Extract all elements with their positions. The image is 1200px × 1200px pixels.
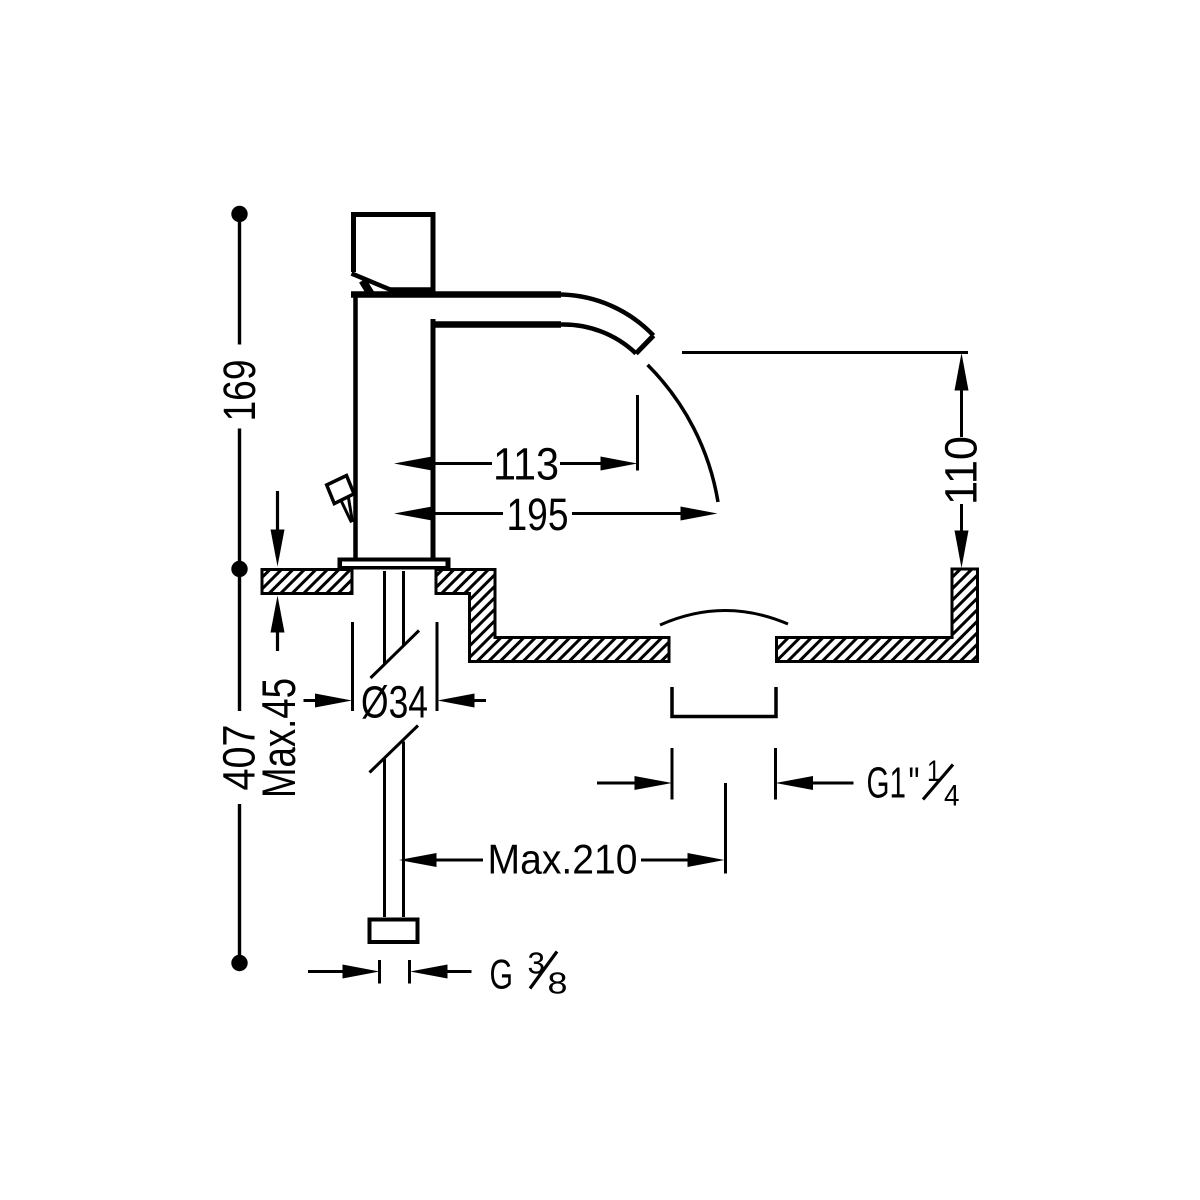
wire g114 centerline below drain — [724, 783, 727, 826]
dimension Max.45 — [276, 491, 279, 651]
wire dim-169-407 line seg1 — [238, 214, 241, 345]
arrow dim195 right — [681, 507, 718, 521]
svg-text:4: 4 — [944, 780, 960, 813]
wire max210 ref vline — [724, 821, 727, 874]
wire spout bottom curve — [561, 324, 636, 353]
wire handle left edge — [351, 212, 356, 272]
svg-text:195: 195 — [507, 489, 569, 540]
wire pipe right lower — [402, 742, 405, 918]
wire g38 tick left — [378, 960, 381, 984]
countertop step shape (hatched) — [436, 570, 669, 662]
pipe break slash 2 — [370, 726, 419, 773]
svg-text:169: 169 — [214, 360, 265, 422]
wire dim113 extension line — [636, 395, 639, 471]
wire g114 shaft right — [812, 782, 854, 785]
wire g38 shaft right — [446, 970, 472, 973]
svg-text:Max.45: Max.45 — [253, 678, 306, 798]
svg-text:110: 110 — [936, 436, 987, 505]
faucet handle square — [351, 212, 436, 294]
clip tilted square — [327, 476, 354, 504]
arrow dim110 down — [955, 531, 969, 569]
arrow dim195 left — [394, 507, 432, 521]
wire pipe left upper — [383, 571, 386, 664]
arrow max45 up — [271, 596, 285, 633]
arrow dim113 left — [394, 457, 432, 471]
wire dim195 line right — [572, 512, 681, 515]
wire body right edge — [431, 319, 436, 558]
clip tail line 2 — [349, 498, 353, 522]
wire g38 shaft left — [308, 970, 344, 973]
node dot bottom — [231, 955, 247, 971]
wire max210 line left — [435, 859, 483, 862]
faucet body and spout — [351, 294, 654, 558]
arrow g38 right-pointing — [343, 965, 380, 979]
wire max45 lower shaft — [276, 629, 279, 651]
wire pipe left lower — [383, 759, 386, 917]
wire body left edge — [353, 294, 358, 558]
drain tailpiece bracket — [672, 687, 776, 717]
wire pipe right upper — [402, 571, 405, 645]
arrow g114 right-pointing — [635, 776, 673, 790]
dimension 113 — [433, 395, 638, 471]
wire dim110 shaft upper — [960, 389, 963, 437]
wire handle bottom diagonal — [352, 274, 391, 290]
wire spout top curve — [561, 295, 654, 336]
left overall dimension chain: line x=239.5 — [238, 214, 241, 957]
dimension 110 with reference line — [682, 353, 968, 533]
wire dim line seg3 — [238, 804, 241, 957]
arrow max45 down — [271, 530, 285, 567]
wire spout bottom straight — [433, 321, 561, 328]
svg-text:8: 8 — [548, 966, 568, 1001]
wire body top plate — [351, 291, 561, 298]
arrow g114 left-pointing — [776, 776, 814, 790]
wire dim113 line left — [433, 462, 492, 465]
arrow max210 left — [399, 853, 437, 867]
water stream arc — [648, 365, 718, 502]
base flange — [338, 558, 451, 570]
label frac slash — [923, 765, 953, 800]
arrow g38 left-pointing — [410, 965, 448, 979]
arrow dim110 up — [955, 353, 969, 391]
wire handle right edge — [431, 212, 436, 294]
wire dia34 shaft right — [473, 699, 486, 702]
countertop right shape (hatched) — [777, 569, 978, 662]
wire ref line spout height — [682, 351, 968, 354]
svg-text:Ø34: Ø34 — [361, 677, 428, 728]
arrow dia34 right — [438, 694, 475, 708]
wire dim195 line left — [433, 512, 503, 515]
svg-text:G: G — [490, 951, 514, 998]
wire max45 upper shaft — [276, 491, 279, 533]
label frac slash — [530, 952, 557, 989]
wire dia34 ext line right — [436, 622, 439, 711]
wire dia34 shaft left — [304, 699, 318, 702]
wire dim110 shaft lower — [960, 504, 963, 532]
dimension 195 — [433, 512, 681, 515]
supply pipe end nut — [370, 920, 418, 943]
pipe break slash 1 — [371, 631, 420, 679]
wire dim line seg2 — [238, 429, 241, 712]
node dot middle — [231, 561, 247, 577]
svg-text:Max.210: Max.210 — [488, 836, 638, 883]
svg-text:": " — [909, 760, 920, 808]
side clip detail on body — [327, 476, 354, 523]
svg-text:113: 113 — [493, 439, 559, 490]
dimension G 3/8 — [308, 960, 472, 984]
clip tail line 1 — [342, 502, 352, 523]
wire g114 tick left — [671, 748, 674, 800]
wire max210 line right — [641, 859, 689, 862]
arrow dim113 right — [601, 457, 638, 471]
wire g38 tick right — [408, 960, 411, 984]
svg-text:G1: G1 — [867, 760, 907, 808]
countertop left band (hatched) — [262, 570, 352, 594]
svg-text:3: 3 — [528, 946, 546, 981]
dimension G1 1/4 — [597, 748, 854, 826]
dimension Max.210 — [435, 821, 726, 874]
wire dim113 line right — [560, 462, 601, 465]
wire dia34 ext line left — [351, 622, 354, 711]
supply pipe — [370, 571, 420, 917]
arrow dia34 left — [315, 694, 352, 708]
dimension Ø34 — [304, 622, 487, 711]
wire handle bottom edge — [389, 287, 435, 292]
base flange white slot — [342, 562, 446, 567]
wire handle top edge — [351, 212, 436, 217]
wire spout tip face — [636, 336, 654, 354]
drain dome arc — [660, 610, 788, 625]
lever stub — [363, 281, 371, 294]
wire g114 tick right — [774, 748, 777, 800]
wire g114 shaft left — [597, 782, 636, 785]
node dot top — [231, 206, 247, 222]
arrow max210 right — [688, 853, 725, 867]
